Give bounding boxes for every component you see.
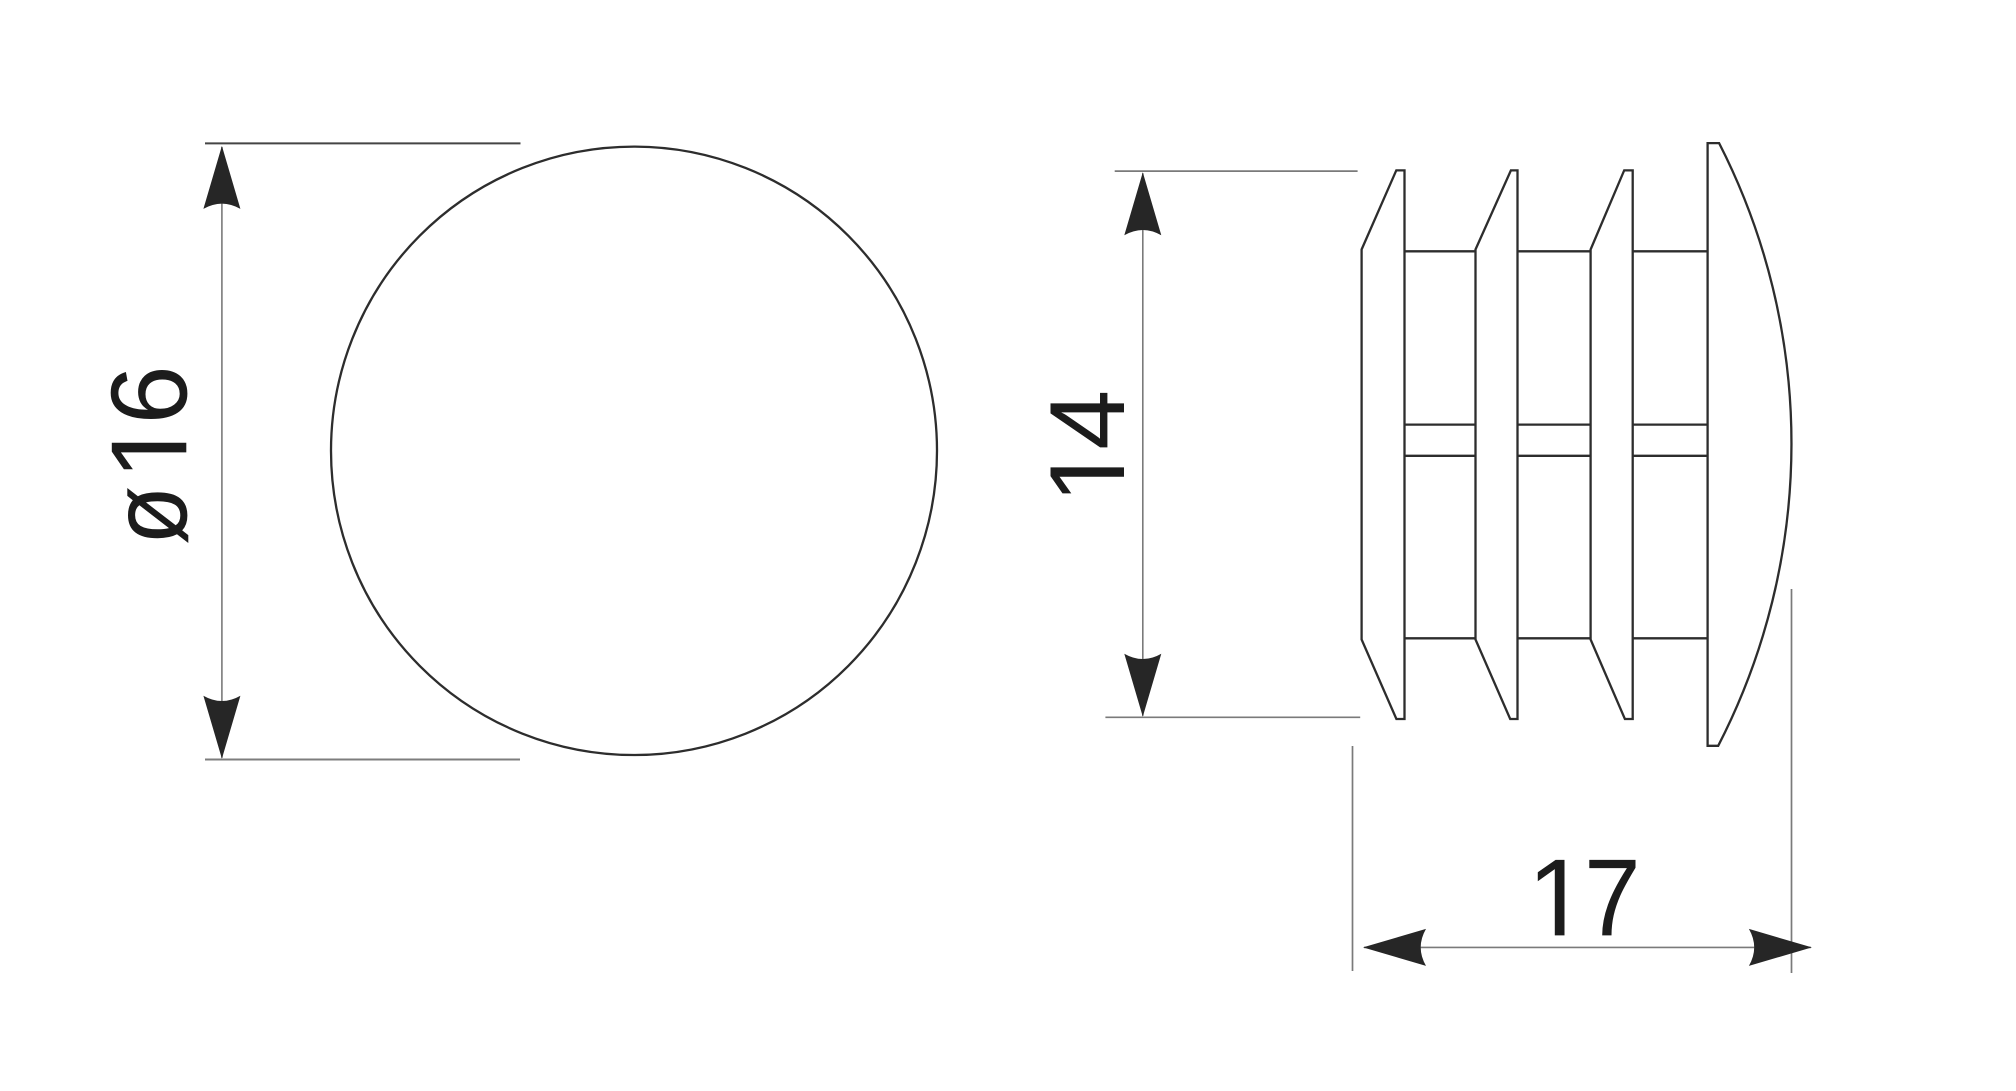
dimension line 14 xyxy=(1142,173,1144,715)
label ø16 glyph 6 xyxy=(111,370,188,419)
extension line top (14) xyxy=(1115,170,1358,172)
arrowhead 14 down xyxy=(1124,654,1161,717)
label ø16 glyph 1 xyxy=(112,443,187,469)
arrowhead 17 right xyxy=(1749,929,1812,966)
label 17 glyph 7 xyxy=(1589,860,1635,936)
body top line segment 2 xyxy=(1518,250,1591,252)
body bottom line segment 1 xyxy=(1405,637,1476,639)
hub band upper line segment 2 xyxy=(1518,423,1591,425)
fin 1 (left disc of insert, side view) xyxy=(1362,170,1405,719)
dimension line 17 xyxy=(1364,946,1811,948)
hub band lower line segment 1 xyxy=(1405,455,1476,457)
hub band lower line segment 3 xyxy=(1633,455,1709,457)
extension line bottom (14) xyxy=(1105,716,1360,718)
arrowhead 17 left xyxy=(1363,929,1426,966)
label 14 glyph 1 xyxy=(1051,467,1125,493)
extension line left (17) xyxy=(1352,746,1354,971)
extension line bottom (ø16) xyxy=(205,759,520,761)
arrowhead ø16 down xyxy=(203,696,240,759)
hub band upper line segment 1 xyxy=(1405,423,1476,425)
arrowhead 14 up xyxy=(1124,172,1161,235)
body bottom line segment 3 xyxy=(1633,637,1708,639)
fin 3 (right disc) xyxy=(1591,170,1633,719)
extension line top (ø16) xyxy=(205,142,521,144)
dimension line ø16 xyxy=(221,147,223,758)
cap (domed head, side view) xyxy=(1708,143,1792,746)
arrowhead ø16 up xyxy=(203,146,240,209)
extension line right (17) xyxy=(1791,589,1793,973)
body bottom line segment 2 xyxy=(1518,637,1591,639)
hub band lower line segment 2 xyxy=(1518,455,1591,457)
label 14 glyph 4 xyxy=(1051,393,1125,448)
label 17 glyph 1 xyxy=(1538,860,1565,936)
body top line segment 1 xyxy=(1405,250,1476,252)
body top line segment 3 xyxy=(1633,250,1708,252)
hub band upper line segment 3 xyxy=(1633,423,1709,425)
label ø16 glyph ø xyxy=(127,488,188,543)
circle (front view of cap, ø16) xyxy=(331,147,937,755)
fin 2 (middle disc) xyxy=(1476,170,1518,719)
